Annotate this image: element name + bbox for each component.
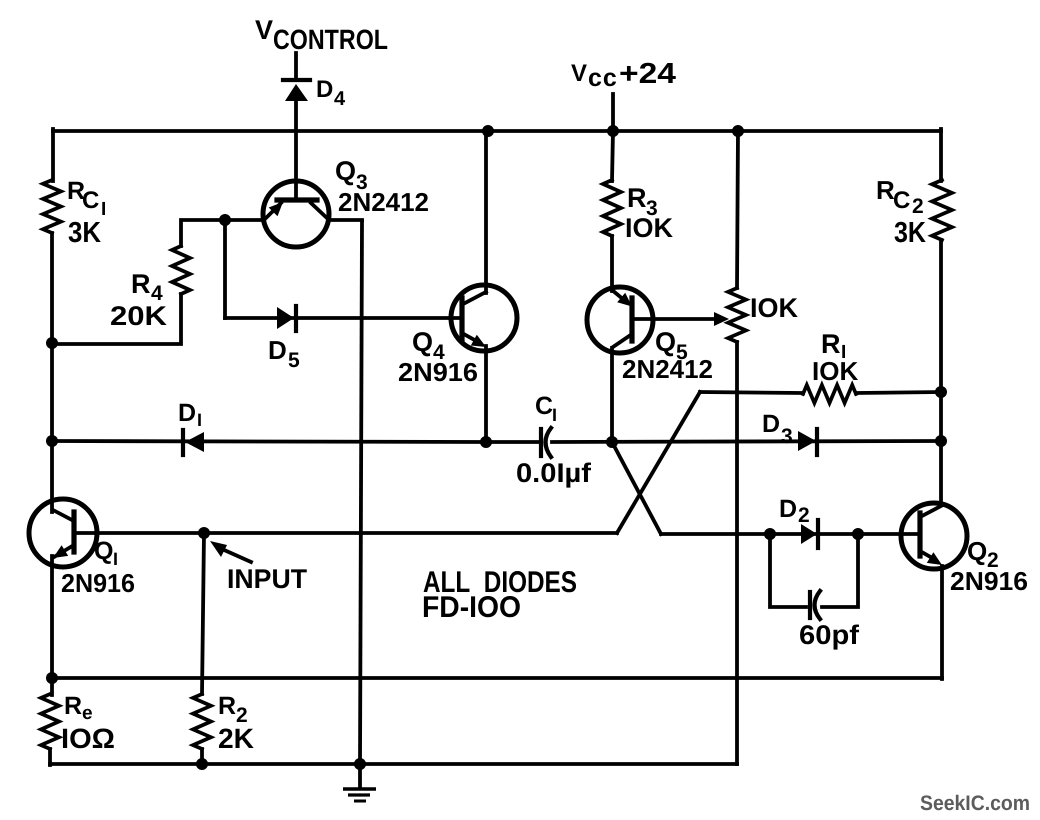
label D1 xyxy=(178,399,202,430)
svg-text:I: I xyxy=(113,549,118,569)
svg-text:0.0Iµf: 0.0Iµf xyxy=(516,458,592,488)
label R4 value 20K xyxy=(110,301,168,331)
node dot top rail / Vcc xyxy=(607,125,619,137)
svg-text:2N916: 2N916 xyxy=(398,357,478,387)
wire Q2 emitter down to lower rail xyxy=(940,566,944,679)
svg-text:C: C xyxy=(893,187,910,214)
label RC2 xyxy=(876,175,924,218)
diode D1 xyxy=(183,430,204,455)
svg-text:V: V xyxy=(571,60,587,87)
node dot input junction xyxy=(198,527,210,539)
ground symbol xyxy=(343,764,376,801)
diode D4 xyxy=(283,80,310,101)
transistor Q3 xyxy=(263,181,329,247)
svg-text:2: 2 xyxy=(912,195,924,218)
svg-text:Q: Q xyxy=(335,156,356,186)
resistor R3 xyxy=(603,180,621,236)
wire top supply rail xyxy=(53,129,941,133)
svg-text:C: C xyxy=(535,392,553,420)
svg-text:D: D xyxy=(779,495,797,523)
node dot Q5 collector / C1 row xyxy=(606,436,618,448)
capacitor 60pf xyxy=(810,591,820,619)
svg-text:D: D xyxy=(178,399,196,427)
label Q2 xyxy=(967,536,999,572)
node dot left rail / D1 row xyxy=(46,435,58,447)
svg-text:2N916: 2N916 xyxy=(950,566,1028,596)
transistor Q2 xyxy=(901,503,967,569)
label D4 xyxy=(316,76,346,110)
label D3 xyxy=(762,410,793,448)
svg-text:60pf: 60pf xyxy=(799,620,860,650)
svg-text:IOK: IOK xyxy=(750,293,799,323)
svg-text:FD-IOO: FD-IOO xyxy=(422,591,521,624)
resistor R4 xyxy=(172,246,190,294)
label Q4 xyxy=(412,327,445,364)
label C1 xyxy=(535,392,557,425)
label Q5 type 2N2412 xyxy=(622,354,713,384)
svg-text:Q: Q xyxy=(967,536,987,566)
diode D3 xyxy=(798,429,817,455)
potentiometer 10K body xyxy=(728,288,746,342)
node dot bottom rail / ground xyxy=(354,758,366,770)
node dot Q3 base-R4 junction xyxy=(219,214,231,226)
node dot RC1 / R4 tap xyxy=(46,337,58,349)
node dot bottom rail / R2 xyxy=(196,758,208,770)
label Q1 type 2N916 xyxy=(61,568,135,598)
wire ground line vertical xyxy=(360,221,362,764)
label R1 xyxy=(821,329,846,363)
svg-text:IOΩ: IOΩ xyxy=(61,723,115,754)
wire C1/D3 row right segment xyxy=(552,441,941,442)
capacitor C1 xyxy=(541,428,551,457)
node dot top rail / pot xyxy=(732,125,744,137)
svg-text:INPUT: INPUT xyxy=(227,564,308,594)
svg-text:2N2412: 2N2412 xyxy=(622,354,713,384)
svg-text:I: I xyxy=(197,410,202,430)
label R4 xyxy=(131,269,163,305)
wire bottom ground rail xyxy=(50,762,737,766)
label RC1 xyxy=(67,177,106,220)
resistor RC1 xyxy=(43,180,61,233)
wire Q3 collector lead to ground line xyxy=(329,218,362,222)
label D2 xyxy=(779,495,810,527)
wire R3 top lead xyxy=(612,131,613,181)
label R3 xyxy=(627,183,658,220)
label R2 xyxy=(218,692,248,727)
label R2 value 2K xyxy=(218,723,254,754)
wire Vcc stub xyxy=(611,94,615,131)
svg-text:CONTROL: CONTROL xyxy=(273,24,388,55)
wire Q4 collector vertical xyxy=(484,131,488,293)
resistor R1 xyxy=(803,385,856,403)
watermark SeekIC.com xyxy=(920,792,1030,815)
svg-text:3K: 3K xyxy=(894,217,926,249)
potentiometer wiper arrow from Q5 xyxy=(632,312,729,326)
svg-text:R: R xyxy=(627,183,647,213)
svg-text:R: R xyxy=(218,692,236,720)
svg-text:D: D xyxy=(268,335,287,365)
node dot R1 / right rail xyxy=(935,386,947,398)
svg-text:SeekIC.com: SeekIC.com xyxy=(920,792,1030,815)
wire left rail bottom (Re to bottom rail) xyxy=(48,749,52,765)
label Vcontrol xyxy=(255,15,388,55)
node dot top rail / Q4 xyxy=(482,125,494,137)
label D5 xyxy=(268,335,300,372)
svg-text:R: R xyxy=(64,692,82,720)
wire Q4 emitter vertical xyxy=(484,346,488,442)
svg-text:4: 4 xyxy=(334,88,346,110)
wire right rail upper (top rail to RC2) xyxy=(939,129,943,181)
label Q3 xyxy=(335,156,368,194)
svg-text:V: V xyxy=(255,15,273,45)
label Q5 xyxy=(655,327,688,364)
wire R4 branch (node A to R4 to RC1 tap) xyxy=(52,220,225,344)
resistor R2 xyxy=(193,694,211,749)
label Q1 xyxy=(94,537,118,569)
transistor Q1 xyxy=(29,499,97,567)
svg-text:+24: +24 xyxy=(619,58,676,90)
svg-text:R: R xyxy=(131,269,151,299)
svg-text:cc: cc xyxy=(588,64,618,92)
wire R1 row xyxy=(700,392,941,393)
svg-text:D: D xyxy=(762,410,780,438)
wire left rail middle (RC1 to Q1) xyxy=(50,233,54,512)
svg-text:2N916: 2N916 xyxy=(61,568,135,598)
wire 60pf loop xyxy=(770,534,858,607)
svg-text:D: D xyxy=(316,76,333,103)
svg-text:Q: Q xyxy=(655,327,676,357)
label RC2 value 3K xyxy=(894,217,926,249)
node dot D2 right / 60pf xyxy=(852,528,864,540)
node dot Q4 emitter / C1 row xyxy=(480,436,492,448)
svg-text:I: I xyxy=(552,405,557,425)
svg-text:R: R xyxy=(821,329,841,359)
label potentiometer value 10K xyxy=(750,293,799,323)
label Vcc +24 xyxy=(571,58,676,92)
label RC1 value 3K xyxy=(68,217,101,249)
wire D5 row (node A vertical to Q4 base) xyxy=(225,316,462,320)
wire Q3 emitter lead to node A xyxy=(225,220,263,318)
svg-text:Q: Q xyxy=(94,537,113,565)
label R1 value 10K xyxy=(812,356,858,386)
svg-text:20K: 20K xyxy=(110,301,168,331)
wire right rail middle (RC2 to Q2 collector) xyxy=(939,240,943,505)
svg-text:5: 5 xyxy=(288,349,300,372)
wire R3 bottom lead to Q5 xyxy=(610,236,614,291)
wire Vcontrol / D4 / Q3 base vertical xyxy=(294,53,298,199)
svg-text:3K: 3K xyxy=(68,217,101,249)
wire left rail upper (top rail to RC1) xyxy=(51,129,55,181)
svg-text:IOK: IOK xyxy=(625,213,674,243)
wire input branch / R2 vertical xyxy=(202,533,204,764)
node dot D2 left / 60pf xyxy=(764,528,776,540)
wire diagonal Q5 collector to D2 row xyxy=(612,442,661,534)
svg-text:2K: 2K xyxy=(218,723,254,754)
svg-text:e: e xyxy=(82,703,93,724)
label Q4 type 2N916 xyxy=(398,357,478,387)
node dot left rail / emitter rail xyxy=(46,672,58,684)
diode D5 xyxy=(277,306,296,331)
svg-text:C: C xyxy=(82,187,99,214)
wire Q5 collector vertical xyxy=(610,348,614,442)
label R3 value 10K xyxy=(625,213,674,243)
wire potentiometer branch vertical xyxy=(737,131,738,764)
svg-text:3: 3 xyxy=(781,425,793,448)
transistor Q4 xyxy=(451,285,517,351)
svg-text:IOK: IOK xyxy=(812,356,858,386)
input arrow xyxy=(210,541,251,562)
label Re value 10ohm xyxy=(61,723,115,754)
svg-text:Q: Q xyxy=(412,327,433,357)
wire D1/C1 row left segment xyxy=(52,441,540,442)
label Q2 type 2N916 xyxy=(950,566,1028,596)
label INPUT xyxy=(227,564,308,594)
label C1 value 0.01uf xyxy=(516,458,592,488)
svg-text:2N2412: 2N2412 xyxy=(338,187,429,217)
diode D2 xyxy=(801,520,818,548)
label 60pf value xyxy=(799,620,860,650)
wire left rail lower (Q1 emitter to Re) xyxy=(50,556,54,695)
wire emitter rail y678 xyxy=(52,676,942,680)
wire Q1 base row xyxy=(96,531,617,535)
svg-text:2: 2 xyxy=(798,504,810,527)
transistor Q5 xyxy=(587,287,653,353)
wire D2 row to Q2 base xyxy=(661,532,920,536)
resistor Re xyxy=(41,694,59,749)
svg-text:I: I xyxy=(101,199,106,220)
label Q3 type 2N2412 xyxy=(338,187,429,217)
resistor RC2 xyxy=(932,180,952,240)
label ALL DIODES FD-100 note xyxy=(422,566,577,624)
label Re xyxy=(64,692,93,724)
wire diagonal Q1 base to R1 xyxy=(617,392,700,533)
node dot D3 / right rail xyxy=(935,435,947,447)
